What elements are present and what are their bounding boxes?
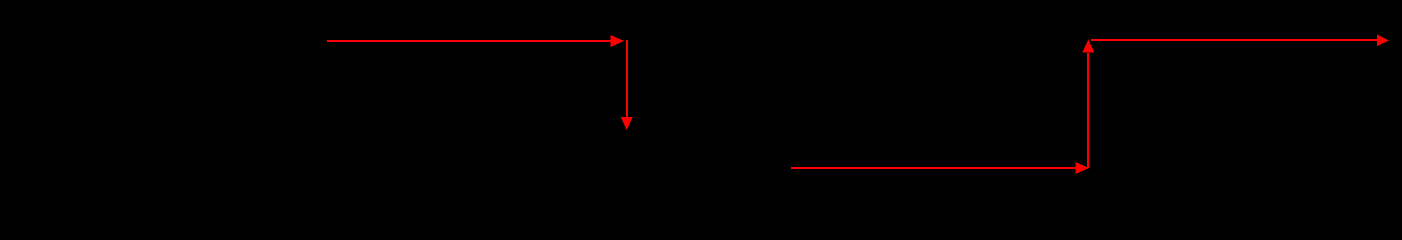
arrow D head (points up) xyxy=(1082,40,1094,53)
arrow C head (points right) xyxy=(1076,162,1090,174)
wire: arrow B shaft (vertical down from corner) xyxy=(626,40,628,117)
wire: arrow E shaft (top-right horizontal) xyxy=(1091,39,1377,41)
arrow E head (points right) xyxy=(1377,34,1389,46)
wire: arrow A shaft (top-left horizontal) xyxy=(327,40,611,42)
arrow B head (points down) xyxy=(621,117,633,131)
wire: arrow C shaft (bottom horizontal) xyxy=(791,167,1076,169)
wire: arrow D shaft (vertical up) xyxy=(1087,53,1089,168)
arrow A head (points right) xyxy=(611,35,625,47)
